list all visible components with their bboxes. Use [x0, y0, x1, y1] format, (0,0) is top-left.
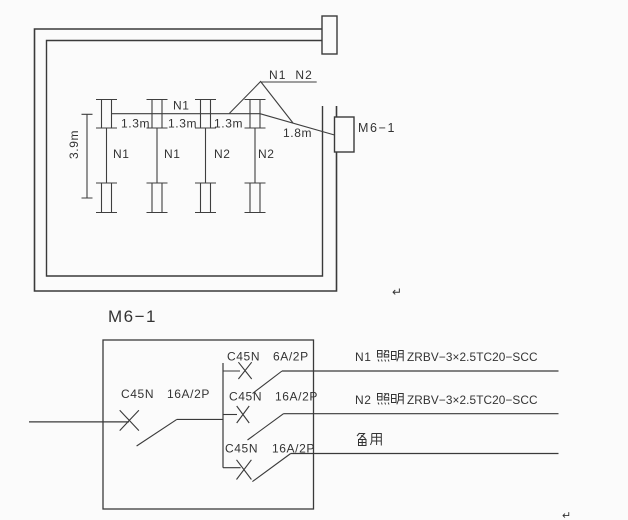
- glyph ming (CJK) N1: [392, 351, 404, 362]
- svg-text:↵: ↵: [392, 285, 402, 299]
- breaker main C45N 16A/2P (fuse X): [120, 410, 139, 430]
- wire L2 top-bottom: [156, 128, 158, 183]
- room outer wall: [35, 29, 337, 291]
- glyph zhao (CJK) N1: [378, 351, 390, 362]
- svg-text:M6−1: M6−1: [108, 307, 157, 326]
- breaker branch2 C45N 16A/2P (fuse X): [237, 406, 250, 423]
- room inner wall: [47, 41, 323, 277]
- panel enclosure box: [103, 340, 314, 509]
- svg-text:1.3m: 1.3m: [214, 117, 243, 131]
- breaker branch2 blade: [248, 414, 284, 440]
- bus bar vertical: [222, 363, 224, 468]
- wall pier top-right: [322, 16, 337, 54]
- svg-text:N1: N1: [173, 99, 190, 113]
- dimension 3.9m line: [82, 114, 93, 198]
- wire tap branch 1: [223, 370, 240, 372]
- wire L4 top-bottom: [254, 128, 256, 183]
- svg-text:N1 N2: N1 N2: [269, 68, 313, 82]
- svg-text:ZRBV−3×2.5TC20−SCC: ZRBV−3×2.5TC20−SCC: [407, 350, 538, 364]
- svg-text:16A/2P: 16A/2P: [275, 390, 318, 404]
- glyph zhao (CJK) N2: [378, 394, 390, 405]
- breaker branch1 blade: [253, 371, 283, 394]
- luminaire L4 bottom (N2): [245, 183, 266, 213]
- luminaire L3 bottom (N2): [195, 183, 216, 213]
- spare label yong (CJK): [371, 434, 382, 446]
- svg-text:N2: N2: [258, 147, 275, 161]
- spare label bei (CJK): [357, 433, 366, 446]
- luminaire L4 top (N2): [245, 100, 266, 129]
- svg-text:C45N: C45N: [227, 350, 260, 364]
- panel M6-1 (plan symbol): [335, 117, 355, 152]
- svg-text:C45N: C45N: [121, 387, 154, 401]
- breaker branch3 C45N 16A/2P (fuse X): [237, 460, 252, 480]
- svg-text:↵: ↵: [562, 510, 571, 520]
- breaker main blade: [137, 419, 177, 446]
- wire L3 top-bottom: [205, 128, 207, 183]
- svg-text:6A/2P: 6A/2P: [273, 350, 309, 364]
- svg-text:N1: N1: [355, 350, 372, 364]
- luminaire L1 bottom (N1): [96, 183, 117, 213]
- svg-text:N1: N1: [113, 147, 130, 161]
- breaker branch3 blade: [252, 454, 290, 482]
- svg-text:1.8m: 1.8m: [283, 126, 312, 140]
- svg-text:1.3m: 1.3m: [121, 117, 150, 131]
- wire circuit N1 out: [282, 370, 559, 372]
- svg-text:3.9m: 3.9m: [67, 130, 81, 159]
- wire main to bus: [177, 418, 223, 420]
- leader lines N1 N2: [229, 82, 316, 124]
- svg-text:C45N: C45N: [229, 390, 262, 404]
- incoming supply wire: [29, 421, 129, 423]
- wire circuit N2 out: [284, 413, 559, 415]
- svg-text:N2: N2: [214, 147, 231, 161]
- wire L1 top-bottom: [106, 128, 108, 183]
- svg-text:16A/2P: 16A/2P: [167, 387, 210, 401]
- svg-text:N2: N2: [355, 393, 372, 407]
- svg-text:C45N: C45N: [225, 442, 258, 456]
- wire tap branch 3: [223, 467, 241, 469]
- wire row connecting luminaires: [112, 113, 261, 115]
- svg-text:1.3m: 1.3m: [168, 117, 197, 131]
- luminaire L2 bottom (N1): [147, 183, 168, 213]
- wire to panel M6-1: [260, 114, 335, 135]
- wire tap branch 2: [223, 414, 237, 416]
- luminaire L1 top (N1): [96, 100, 117, 129]
- wire circuit spare out: [291, 453, 559, 455]
- breaker branch1 C45N 6A/2P (fuse X): [238, 362, 251, 379]
- svg-text:M6−1: M6−1: [358, 121, 396, 135]
- svg-text:N1: N1: [164, 147, 181, 161]
- svg-text:ZRBV−3×2.5TC20−SCC: ZRBV−3×2.5TC20−SCC: [407, 393, 538, 407]
- svg-text:16A/2P: 16A/2P: [272, 442, 315, 456]
- luminaire L2 top (N1): [147, 100, 168, 129]
- glyph ming (CJK) N2: [392, 394, 404, 405]
- luminaire L3 top (N2): [195, 100, 216, 129]
